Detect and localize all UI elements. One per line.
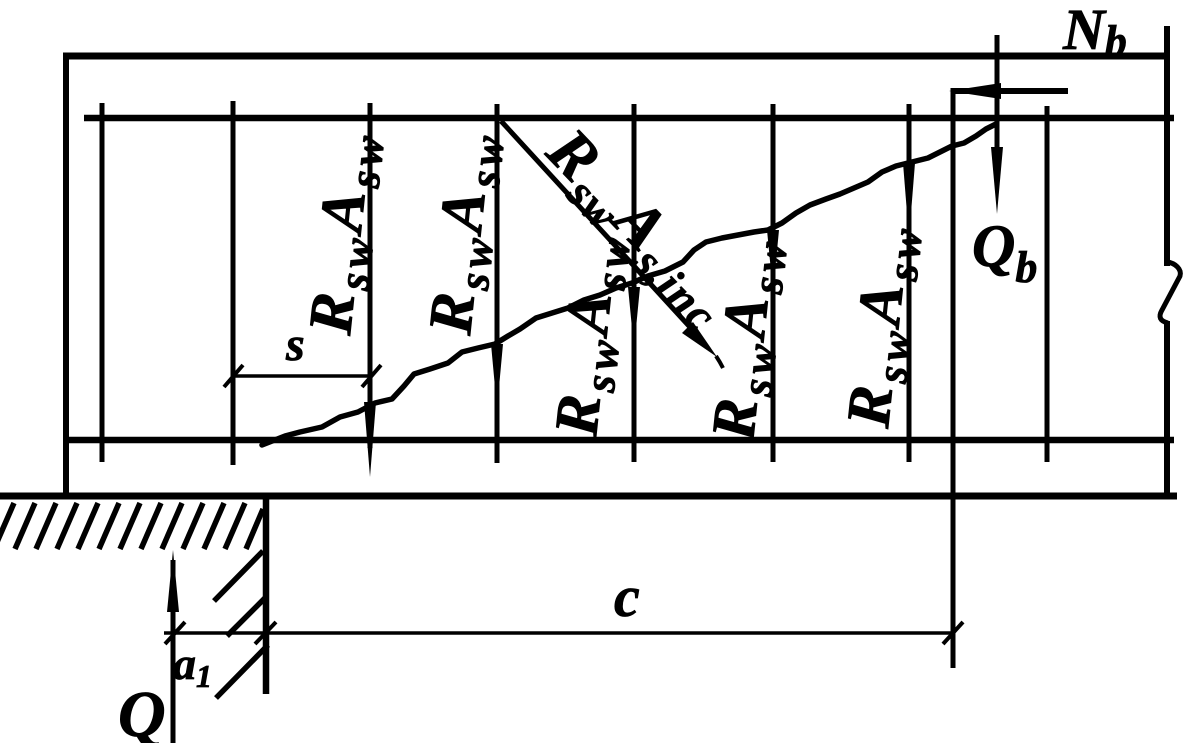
stirrup 8 [1045, 106, 1050, 462]
stirrup 6 [771, 104, 776, 462]
svg-text:Q: Q [118, 678, 166, 743]
tick at end of c [943, 622, 963, 644]
bottom longitudinal rebar line [69, 437, 1174, 444]
svg-text:a1: a1 [173, 638, 212, 694]
tick at Q line [165, 622, 185, 644]
beam top edge [63, 53, 1169, 60]
reaction Q arrow (pointing up) [171, 560, 176, 743]
stirrup 3 force arrowhead [364, 402, 376, 477]
break symbol on right edge [1160, 262, 1180, 323]
beam left edge [63, 53, 69, 497]
beam right edge lower segment [1164, 321, 1170, 499]
tick at s left [224, 365, 243, 387]
svg-text:RswAsw: RswAsw [699, 232, 797, 446]
dimension line s [233, 374, 371, 378]
svg-text:RswAsw: RswAsw [296, 126, 394, 340]
tick at support face [255, 622, 276, 644]
stirrup 5 [632, 104, 637, 462]
stirrup 2 [231, 101, 236, 465]
stirrup 7 force arrowhead [903, 163, 915, 238]
stirrup 3 [368, 103, 373, 448]
svg-text:c: c [614, 564, 640, 629]
tick at s right [362, 365, 381, 387]
force N_b arrow (horizontal, pointing left) [953, 88, 1068, 94]
svg-text:RswAsw: RswAsw [416, 126, 514, 340]
support face (column edge) [263, 496, 270, 694]
stirrup 6 force arrowhead [767, 230, 779, 292]
stirrup 1 [100, 103, 105, 462]
top longitudinal rebar line [84, 115, 1174, 122]
stirrup 5 force arrowhead [628, 287, 640, 349]
dimension extension line at end of inclined section [951, 118, 956, 668]
beam right edge upper segment [1164, 26, 1170, 266]
stirrup 7 [907, 104, 912, 462]
stirrup 4 force arrowhead [491, 344, 503, 409]
stirrup 4 [495, 104, 500, 463]
inclined crack (wavy line) [262, 124, 996, 445]
inclined bent-up bar R_sw A_s,inc [501, 121, 700, 338]
support hatching: along vertical face [214, 551, 268, 698]
dimension line a1 + c [164, 631, 953, 635]
small vertical tie from N_b arrow to rebar line [951, 88, 956, 120]
support hatching: top band [0, 503, 263, 549]
svg-text:Nb: Nb [1062, 0, 1127, 66]
beam bottom edge / ground surface line [0, 493, 1177, 500]
bent-up bar arrowhead [682, 322, 717, 357]
force Q_b arrow (vertical, pointing down) [995, 35, 1000, 160]
svg-text:RswAsw: RswAsw [542, 228, 640, 442]
svg-text:Qb: Qb [972, 213, 1037, 292]
svg-text:RswAsw: RswAsw [834, 219, 932, 433]
